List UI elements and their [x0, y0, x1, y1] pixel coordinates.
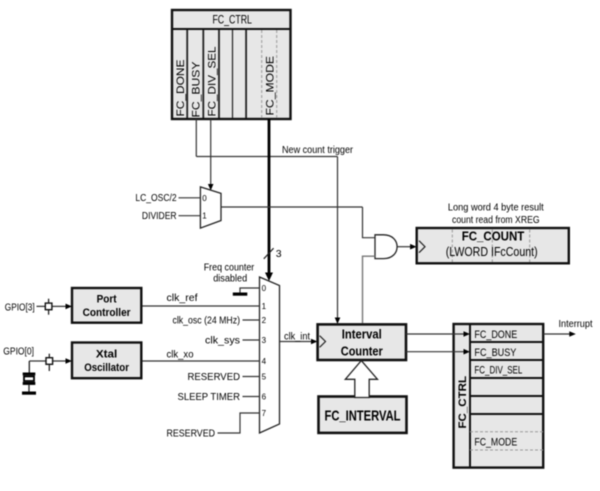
pad symbol GPIO[3] [45, 299, 52, 315]
wire FC_MODE thick bus down to big mux [265, 119, 273, 281]
svg-text:0: 0 [202, 194, 207, 203]
svg-text:FC_INTERVAL: FC_INTERVAL [325, 407, 401, 424]
svg-text:GPIO[3]: GPIO[3] [5, 302, 35, 313]
svg-text:(LWORD IFcCount): (LWORD IFcCount) [446, 245, 538, 259]
svg-text:Controller: Controller [83, 307, 132, 319]
svg-text:DIVIDER: DIVIDER [142, 211, 177, 222]
wire mux U1 output [221, 206, 363, 208]
wire Interval Counter to AND input B [363, 256, 376, 323]
and-gate G1 [375, 235, 397, 259]
wire GPIO[3] to Port Controller [37, 304, 73, 310]
svg-text:Port: Port [97, 294, 117, 306]
mux U2 (clock select, 8 inputs) [260, 277, 280, 433]
label Long word caption [448, 202, 544, 226]
bus width slash 3 [264, 248, 282, 260]
block Port Controller [72, 288, 141, 323]
wire Interrupt [543, 331, 576, 337]
wire new count trigger horizontal [196, 156, 337, 158]
svg-text:2: 2 [262, 316, 267, 325]
wire RESERVED to mux pin 5 [243, 376, 260, 378]
label Freq counter disabled [204, 262, 255, 284]
svg-text:7: 7 [262, 409, 267, 418]
wire LC_OSC/2 to mux pin 0 [179, 197, 201, 199]
wire Interval Counter to FC_BUSY [406, 349, 470, 355]
svg-text:Freq counter: Freq counter [204, 262, 255, 273]
svg-text:clk_int: clk_int [284, 331, 310, 342]
svg-text:Oscillator: Oscillator [84, 362, 129, 374]
svg-text:clk_ref: clk_ref [167, 293, 198, 304]
svg-text:FC_DIV_SEL: FC_DIV_SEL [474, 365, 522, 377]
svg-text:SLEEP TIMER: SLEEP TIMER [178, 392, 241, 403]
wire new count trigger vertical into Interval Counter [335, 157, 341, 325]
wire FC_BUSY down from FC_CTRL [195, 119, 197, 157]
svg-text:FC_CTRL: FC_CTRL [212, 12, 252, 26]
svg-text:RESERVED: RESERVED [188, 372, 241, 383]
wire clk_osc to mux pin 2 [243, 319, 260, 321]
svg-text:FC_MODE: FC_MODE [474, 436, 517, 448]
svg-text:FC_DIV_SEL: FC_DIV_SEL [206, 47, 218, 117]
wire SLEEP TIMER to mux pin 6 [243, 396, 260, 398]
crystal Y1 [23, 361, 36, 392]
wire clk_xo Xtal Oscillator to mux pin 4 [141, 360, 259, 362]
svg-text:FC_COUNT: FC_COUNT [462, 229, 525, 244]
svg-text:Interval: Interval [342, 327, 382, 342]
block Interval Counter [318, 324, 406, 360]
svg-text:FC_BUSY: FC_BUSY [474, 347, 517, 359]
svg-text:clk_sys: clk_sys [205, 336, 240, 347]
block FC_INTERVAL [319, 397, 407, 433]
svg-text:Counter: Counter [341, 344, 383, 359]
arrowhead clk_int into Interval Counter [311, 336, 326, 348]
svg-text:clk_xo: clk_xo [167, 349, 194, 360]
block arrow FC_INTERVAL to Interval Counter [345, 361, 377, 398]
wire RESERVED elbow to mux pin 7 [218, 413, 260, 433]
svg-text:FC_DONE: FC_DONE [175, 60, 187, 117]
wire Interval Counter to FC_DONE [406, 331, 470, 337]
ground (crystal) [22, 392, 36, 395]
wire AND output to FC_COUNT [397, 244, 417, 250]
svg-text:count read from XREG: count read from XREG [452, 215, 540, 226]
wire GPIO[0] to Xtal Oscillator [29, 358, 72, 364]
svg-text:3: 3 [262, 336, 267, 345]
svg-text:Xtal: Xtal [96, 349, 117, 361]
svg-text:4: 4 [262, 357, 267, 366]
register FC_COUNT [417, 228, 569, 263]
svg-text:FC_CTRL: FC_CTRL [457, 376, 469, 429]
svg-text:Long word 4 byte result: Long word 4 byte result [448, 202, 544, 213]
wire clk_sys to mux pin 3 [243, 339, 260, 341]
mux U1 (LC_OSC/2 / DIVIDER) [200, 187, 221, 228]
wire FC_DIV_SEL down to mux select [208, 119, 214, 191]
pad symbol GPIO[0] [46, 354, 53, 371]
svg-text:FC_MODE: FC_MODE [264, 56, 276, 116]
svg-text:RESERVED: RESERVED [167, 429, 216, 440]
svg-text:FC_DONE: FC_DONE [474, 329, 517, 341]
svg-text:LC_OSC/2: LC_OSC/2 [135, 193, 177, 204]
wire clk_ref Port Controller to mux pin 1 [141, 305, 259, 307]
wire clk_int mux output to Interval Counter [280, 341, 313, 343]
register FC_CTRL (top bit-field box) [172, 10, 291, 119]
svg-text:FC_BUSY: FC_BUSY [191, 61, 203, 118]
svg-text:1: 1 [262, 302, 267, 311]
svg-text:1: 1 [202, 212, 207, 221]
svg-text:GPIO[0]: GPIO[0] [3, 347, 34, 358]
svg-text:Interrupt: Interrupt [559, 319, 593, 330]
svg-text:6: 6 [262, 393, 267, 402]
block Xtal Oscillator [72, 343, 141, 379]
ground (freq counter disabled) [233, 293, 248, 296]
wire DIVIDER to mux pin 1 [179, 215, 201, 217]
svg-text:5: 5 [262, 373, 267, 382]
svg-text:disabled: disabled [213, 274, 247, 285]
svg-text:clk_osc (24 MHz): clk_osc (24 MHz) [173, 316, 241, 327]
wire mux output to AND input A [363, 207, 376, 238]
wire mux pin 0 to ground [240, 288, 260, 293]
svg-text:New count trigger: New count trigger [282, 145, 354, 156]
svg-text:3: 3 [276, 248, 282, 260]
register stack FC_CTRL (right) [454, 324, 544, 468]
svg-text:0: 0 [262, 284, 267, 293]
